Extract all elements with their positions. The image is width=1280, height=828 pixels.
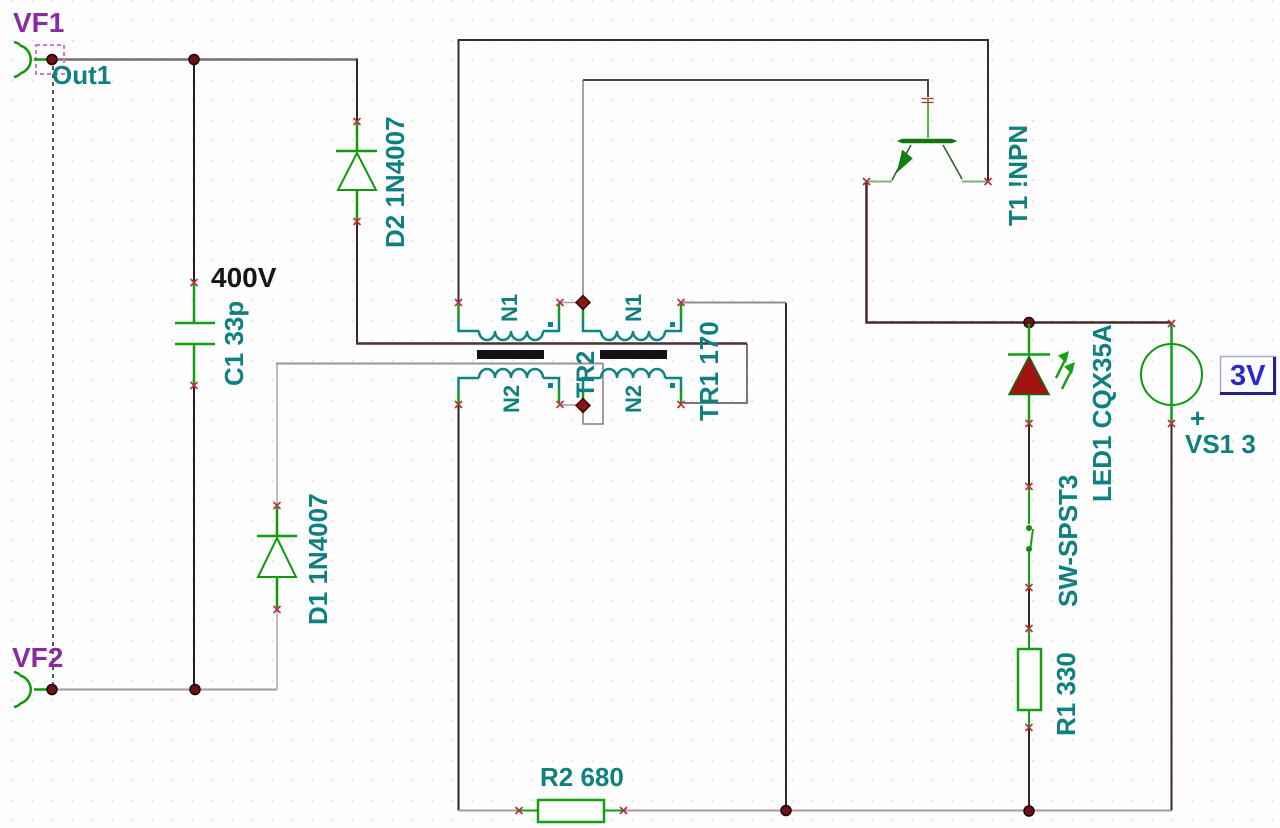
svg-text:VF2: VF2 — [12, 642, 63, 673]
node junction bottom x1029 — [1024, 806, 1034, 816]
switch SW-SPST3 — [1026, 488, 1033, 587]
wire upper diamond to transistor base — [582, 80, 584, 302]
svg-text:TR2: TR2 — [572, 351, 600, 398]
wire below-core horizontal from D1 — [276, 363, 603, 365]
wire wrap to TR1 N2 right pin — [684, 344, 747, 404]
resistor R2 680 — [519, 800, 623, 822]
diode D1 1N4007 — [257, 507, 297, 609]
node junction bottom x786 — [781, 806, 791, 816]
connector VF2 — [14, 672, 52, 707]
pin marks VS1 — [1168, 320, 1175, 427]
wire transistor emitter to LED rail — [867, 183, 1172, 323]
svg-text:T1 !NPN: T1 !NPN — [1003, 125, 1033, 226]
LED LED1 CQX35A — [1008, 324, 1075, 423]
pin marks TR1 — [678, 299, 685, 408]
node VF2 pin junction — [47, 685, 57, 695]
selection box VF1 pin — [36, 45, 64, 74]
svg-text:C1 33p: C1 33p — [219, 301, 249, 386]
node lower diamond junction — [576, 399, 590, 413]
pin marks C1 — [191, 279, 198, 389]
polarity dot TR1 N2 — [670, 383, 675, 388]
wire C1 top drop — [193, 60, 195, 282]
wire VF2 rail — [52, 689, 277, 691]
svg-text:R1 330: R1 330 — [1051, 652, 1081, 736]
polarity dot TR2 N1 — [548, 322, 553, 327]
resistor R1 330 — [1018, 630, 1041, 727]
svg-text:N1: N1 — [497, 294, 522, 322]
wire D1 bottom riser — [276, 610, 278, 690]
wire D2 top drop — [356, 59, 358, 122]
svg-text:R2 680: R2 680 — [540, 762, 624, 792]
connector VF1 — [14, 42, 52, 77]
svg-text:400V: 400V — [211, 262, 277, 293]
wire VS1 bottom drop — [1171, 424, 1173, 811]
voltage source VS1 — [1141, 325, 1202, 422]
transformer TR2 core — [477, 350, 544, 359]
node junction LED top — [1024, 318, 1034, 328]
svg-text:D2 1N4007: D2 1N4007 — [380, 116, 410, 248]
wire C1 bottom to VF2 rail — [193, 386, 195, 690]
wire above-core horizontal from D2 — [356, 342, 747, 345]
value box 3V — [1220, 357, 1276, 394]
transformer TR2 winding N2 — [459, 369, 560, 404]
transistor T1 — [867, 99, 987, 182]
svg-text:N2: N2 — [499, 385, 524, 413]
pin marks switch — [1026, 483, 1033, 591]
polarity dot TR2 N2 — [548, 383, 553, 388]
capacitor C1 — [175, 284, 215, 385]
pin marks TR2 — [455, 299, 564, 408]
svg-text:3V: 3V — [1230, 360, 1266, 392]
polarity dot TR1 N1 — [670, 322, 675, 327]
wire TR1-N1 right pin to drop at 786 — [682, 302, 786, 304]
wire D2 bottom drop — [356, 222, 358, 344]
svg-text:SW-SPST3: SW-SPST3 — [1053, 475, 1083, 607]
diode D2 1N4007 — [336, 123, 377, 221]
dotted guide line — [52, 66, 54, 684]
svg-text:N1: N1 — [621, 294, 646, 322]
pin marks D1 — [274, 502, 281, 613]
svg-text:Out1: Out1 — [52, 60, 111, 90]
wire R1 bottom to rail — [1028, 728, 1030, 811]
node junction C1 top on VF1 rail — [189, 55, 199, 65]
wire hook to lower diamond — [583, 364, 603, 425]
transformer TR1 winding N1 — [583, 303, 681, 340]
pin marks R2 — [516, 807, 628, 814]
wire D1 top riser — [276, 364, 278, 505]
svg-text:VS1 3: VS1 3 — [1185, 429, 1256, 459]
transformer TR1 winding N2 — [583, 369, 681, 405]
wire loop TR2-N1 left to transistor collector — [459, 40, 989, 302]
node upper diamond junction — [576, 296, 590, 310]
svg-text:N2: N2 — [621, 385, 646, 413]
wire VF1 rail top — [52, 58, 357, 61]
wire stub TR2-N1 right pin to diamond — [560, 302, 578, 304]
svg-text:TR1 170: TR1 170 — [694, 321, 724, 421]
svg-text:VF1: VF1 — [13, 7, 64, 38]
transformer TR2 winding N1 — [459, 303, 560, 340]
node junction C1 bottom on VF2 rail — [190, 685, 200, 695]
svg-text:D1 1N4007: D1 1N4007 — [303, 493, 333, 625]
wire LED bottom to switch — [1028, 424, 1030, 486]
svg-text:LED1 CQX35A: LED1 CQX35A — [1087, 324, 1117, 502]
wire drop x786 to bottom rail — [785, 303, 787, 811]
pin mark LED bottom — [1026, 420, 1033, 427]
wire TR2-N2 left drop to bottom rail — [458, 404, 460, 811]
transformer TR1 core — [600, 350, 667, 359]
pin marks D2 — [354, 118, 361, 225]
pin marks T1 — [863, 99, 992, 186]
pin marks R1 — [1026, 625, 1033, 731]
wire bottom rail — [459, 810, 1172, 812]
wire stub TR2-N2 right pin to lower diamond — [560, 404, 578, 406]
node Out1 (VF1 pin junction) — [47, 55, 57, 65]
wire switch to R1 — [1028, 588, 1030, 628]
